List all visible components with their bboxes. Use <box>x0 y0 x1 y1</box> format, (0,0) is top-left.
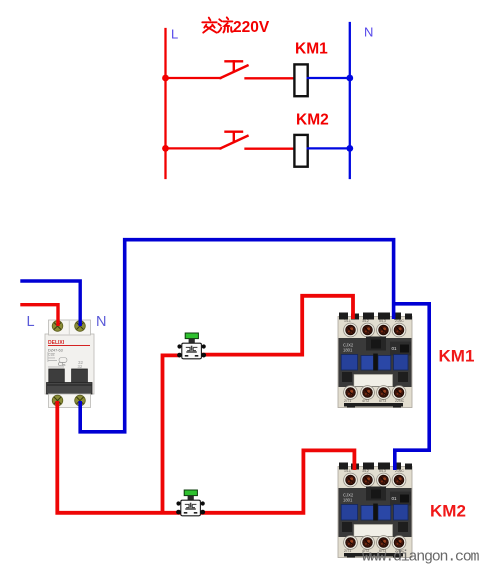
breaker body <box>45 334 94 394</box>
breaker bottom terminal block <box>49 394 91 408</box>
node junction L-branch1 <box>162 75 169 82</box>
wire branch1 red from L <box>166 77 221 79</box>
svg-text:www.diangon.com: www.diangon.com <box>362 549 480 566</box>
wire red breaker-out bottom bus <box>57 401 354 513</box>
wire L line vertical <box>164 29 166 178</box>
switch SB1 plunger <box>226 60 243 62</box>
wire branch1 red to coil <box>246 77 296 79</box>
node junction N-branch2 <box>346 145 353 152</box>
pushbutton SB2 <box>176 490 205 516</box>
svg-text:32: 32 <box>78 364 83 369</box>
wire red riser to SB1 <box>163 355 181 512</box>
wire red SB1 to KM1 A1 <box>201 296 353 355</box>
wire branch2 blue to N <box>308 147 350 149</box>
pushbutton SB1 <box>177 333 206 359</box>
wire branch1 blue to N <box>308 77 350 79</box>
contactor KM1 <box>338 313 412 408</box>
svg-text:L: L <box>171 27 178 42</box>
wire red supply into breaker L <box>20 305 58 326</box>
breaker top screws <box>52 321 63 332</box>
switch SB1 blade <box>221 66 248 79</box>
breaker toggles <box>49 369 65 384</box>
wire blue branch KM1 to KM2 A2 <box>394 304 430 470</box>
coil KM1 <box>294 64 307 96</box>
svg-text:C32: C32 <box>48 353 55 357</box>
switch SB2 blade <box>221 136 248 149</box>
coil KM2 <box>294 135 307 167</box>
wire blue breaker-out loop to KM1 A2 <box>80 240 393 432</box>
svg-text:220V: 220V <box>233 19 270 36</box>
breaker top terminal block <box>49 320 91 335</box>
svg-text:KM2: KM2 <box>296 112 329 129</box>
label 交流220V <box>202 17 233 32</box>
wire blue supply into breaker N <box>20 281 80 326</box>
wire branch2 red to coil <box>246 148 296 150</box>
wire N line vertical <box>349 23 351 178</box>
svg-text:N: N <box>96 314 106 330</box>
svg-text:KM1: KM1 <box>439 347 475 366</box>
node junction N-branch1 <box>346 75 353 82</box>
breaker QF DZ47-63 <box>45 320 94 408</box>
wire branch2 red from L <box>166 147 221 149</box>
node junction L-branch2 <box>162 145 169 152</box>
svg-text:KM2: KM2 <box>430 502 466 521</box>
svg-text:KM1: KM1 <box>295 41 328 58</box>
switch SB2 plunger <box>226 130 243 132</box>
svg-text:N: N <box>364 25 373 40</box>
contactor KM2 <box>338 463 412 558</box>
svg-text:L: L <box>27 314 35 330</box>
breaker bottom screws <box>52 395 63 406</box>
